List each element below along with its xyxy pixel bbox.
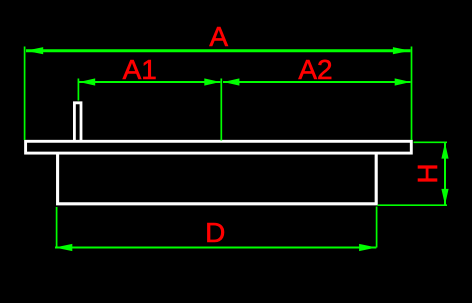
svg-text:H: H	[412, 163, 443, 183]
svg-text:A1: A1	[123, 54, 157, 85]
svg-text:A2: A2	[298, 54, 332, 85]
svg-text:A: A	[209, 21, 228, 52]
svg-text:D: D	[205, 217, 225, 248]
